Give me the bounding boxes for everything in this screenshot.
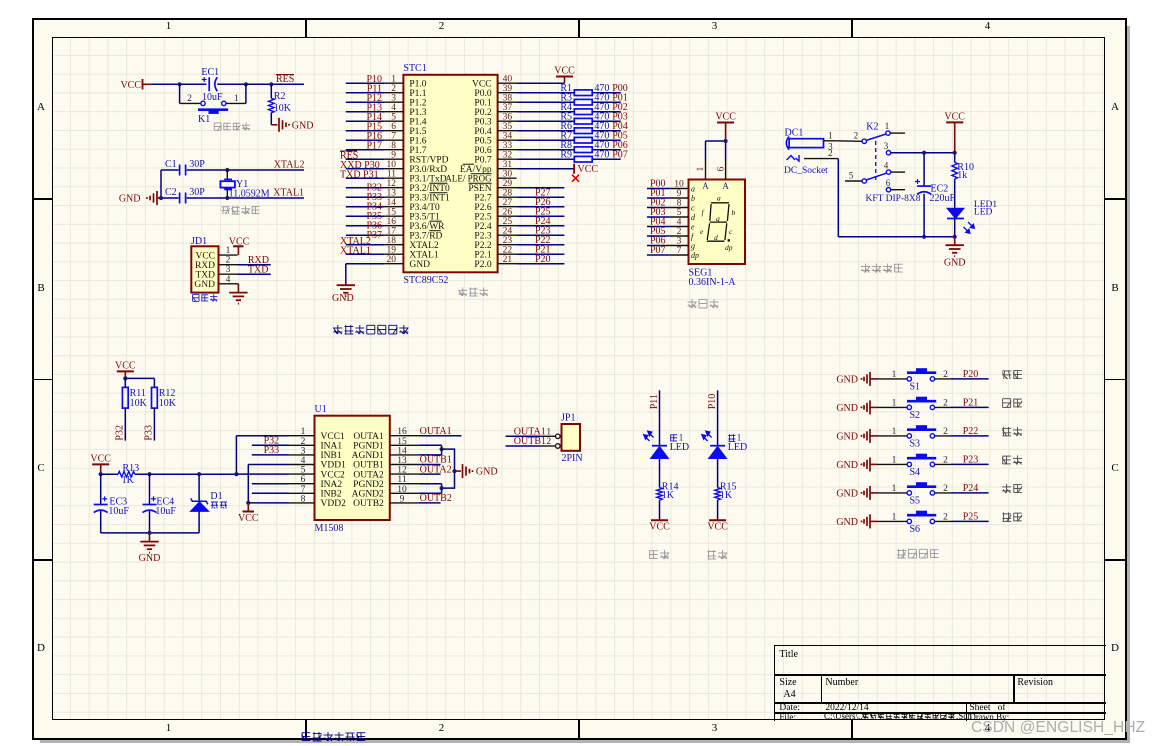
- wire: [517, 206, 565, 208]
- motor driver U1 M1508: [289, 404, 419, 534]
- svg-text:K2: K2: [866, 121, 878, 132]
- svg-text:2: 2: [391, 84, 396, 94]
- svg-text:P0.5: P0.5: [474, 136, 491, 146]
- wire net P21: [935, 406, 989, 408]
- svg-text:P20: P20: [535, 254, 551, 265]
- svg-text:dp: dp: [725, 243, 733, 252]
- wire: [517, 215, 565, 217]
- net label P24: [963, 483, 979, 494]
- node gnd junction: [147, 531, 151, 535]
- svg-text:8: 8: [391, 141, 396, 151]
- svg-text:P1.2: P1.2: [409, 98, 426, 108]
- resistor R14 1K: [657, 482, 679, 521]
- svg-text:P1.5: P1.5: [409, 127, 426, 137]
- component labels SEG1 0.36IN-1-A: [689, 268, 737, 289]
- ground GND (U1): [455, 464, 498, 478]
- svg-text:C:\Users\..: C:\Users\..: [824, 711, 863, 721]
- net label XTAL2: [274, 160, 305, 171]
- svg-text:P1.4: P1.4: [409, 117, 426, 127]
- svg-text:2: 2: [187, 94, 192, 104]
- net label TXD: [248, 264, 269, 275]
- svg-text:P0.7: P0.7: [474, 155, 491, 165]
- svg-text:1: 1: [892, 399, 897, 409]
- label 正转: [1002, 427, 1022, 436]
- svg-text:P0.4: P0.4: [474, 127, 491, 137]
- svg-text:OUTB2: OUTB2: [353, 499, 384, 509]
- watermark CSDN @ENGLISH_HHZ: [971, 719, 1145, 737]
- net label OUTB2 (U1): [420, 493, 452, 504]
- svg-text:15: 15: [387, 208, 397, 218]
- button S3: [892, 426, 949, 450]
- svg-text:P22: P22: [963, 426, 979, 437]
- button S2: [892, 397, 949, 421]
- resistor R12 10K: [152, 387, 177, 440]
- svg-text:27: 27: [503, 198, 513, 208]
- svg-text:R2: R2: [274, 91, 286, 102]
- svg-text:P2.2: P2.2: [474, 241, 491, 251]
- svg-text:14: 14: [387, 198, 397, 208]
- svg-text:P0.1: P0.1: [474, 98, 491, 108]
- svg-text:C2: C2: [165, 187, 177, 198]
- ground GND (S6): [836, 514, 877, 528]
- net label P25: [963, 512, 979, 523]
- wire: [217, 83, 246, 85]
- wire rail: [101, 473, 237, 475]
- wire pgnd2: [419, 484, 442, 488]
- label 加速: [1002, 484, 1022, 493]
- led 绿1: [644, 431, 690, 488]
- power port VCC (JD1): [229, 237, 250, 256]
- svg-text:13: 13: [387, 189, 397, 199]
- wire net P22: [935, 435, 989, 437]
- wire: [517, 244, 565, 246]
- svg-text:11: 11: [397, 475, 406, 485]
- svg-text:XTAL1: XTAL1: [340, 246, 371, 257]
- svg-text:3: 3: [677, 237, 682, 247]
- resistor R8 470: [560, 140, 609, 152]
- svg-text:10K: 10K: [159, 398, 177, 409]
- svg-text:TXD: TXD: [195, 270, 215, 280]
- wire agnd2: [419, 488, 442, 493]
- svg-text:GND: GND: [119, 194, 141, 205]
- button K1: [180, 84, 246, 125]
- ground GND (crystal): [119, 191, 163, 205]
- diode D1 (zener): [190, 474, 227, 533]
- svg-text:P2.4: P2.4: [474, 222, 491, 232]
- power port VCC (P11): [649, 520, 670, 533]
- caption 晶振电路: [221, 206, 259, 214]
- svg-text:OUTB1: OUTB1: [353, 461, 384, 471]
- net label P23: [963, 455, 979, 466]
- svg-text:P0.3: P0.3: [474, 117, 491, 127]
- net label OUTB1 (JP1): [514, 436, 546, 447]
- net label P11 (led): [649, 394, 660, 409]
- wire: [877, 406, 907, 408]
- capacitor C1: [165, 159, 205, 176]
- svg-text:PSEN: PSEN: [468, 184, 491, 194]
- node pgnd1-agnd1 junction: [440, 447, 444, 451]
- net label RES: [276, 74, 294, 85]
- ground GND (power): [944, 237, 966, 269]
- svg-text:P21: P21: [963, 398, 979, 409]
- wire pgnd1: [419, 445, 442, 449]
- svg-text:VCC: VCC: [90, 453, 111, 464]
- net label P03: [612, 112, 628, 123]
- svg-text:OUTA1: OUTA1: [420, 426, 452, 437]
- svg-text:30P: 30P: [189, 187, 205, 198]
- svg-text:VCC: VCC: [238, 513, 259, 524]
- net label P23: [535, 226, 551, 237]
- svg-text:INA2: INA2: [321, 480, 343, 490]
- wire: [517, 196, 565, 198]
- net label P20: [535, 254, 551, 265]
- svg-text:20: 20: [387, 255, 397, 265]
- svg-text:P1.0: P1.0: [409, 79, 426, 89]
- svg-text:RES: RES: [276, 74, 294, 85]
- svg-text:4: 4: [677, 218, 682, 228]
- svg-text:TXD P31: TXD P31: [340, 170, 379, 181]
- wire seg left pins: [647, 189, 670, 256]
- ground GND (mcu): [332, 285, 355, 304]
- svg-text:9: 9: [400, 494, 405, 504]
- svg-text:LED: LED: [728, 442, 747, 453]
- svg-text:GND: GND: [836, 403, 858, 414]
- svg-text:21: 21: [503, 255, 513, 265]
- net label P01: [612, 93, 628, 104]
- svg-text:470: 470: [594, 150, 609, 161]
- resistor R11 10K: [122, 387, 147, 440]
- svg-text:10uF: 10uF: [108, 506, 129, 517]
- wire pin6 stub: [252, 483, 289, 485]
- net label OUTA1 (U1): [420, 426, 452, 437]
- wire: [161, 170, 179, 198]
- svg-text:10uF: 10uF: [155, 506, 176, 517]
- ground GND (S5): [836, 486, 877, 500]
- svg-text:R9: R9: [560, 150, 572, 161]
- svg-text:10: 10: [387, 160, 397, 170]
- wire net P20: [935, 378, 989, 380]
- wire: [877, 492, 907, 494]
- svg-text:RXD: RXD: [195, 261, 215, 271]
- resistor R9 470: [560, 150, 609, 162]
- button S1: [892, 369, 949, 393]
- wire pin8 vdd2: [248, 502, 288, 504]
- net label P06: [612, 140, 628, 151]
- svg-text:OUTA2: OUTA2: [353, 470, 384, 480]
- svg-text:6: 6: [886, 178, 891, 188]
- svg-text:DC1: DC1: [785, 128, 804, 139]
- svg-text:10uF: 10uF: [202, 92, 223, 103]
- svg-text:VCC: VCC: [195, 251, 215, 261]
- svg-text:3: 3: [391, 94, 396, 104]
- svg-text:P20: P20: [963, 369, 979, 380]
- connector JP1 2PIN: [540, 413, 583, 465]
- svg-text:INB2: INB2: [321, 490, 342, 500]
- button S4: [892, 454, 949, 478]
- svg-text:16: 16: [397, 427, 407, 437]
- ground GND (S2): [836, 400, 877, 414]
- wire: [517, 92, 621, 94]
- svg-text:30: 30: [503, 170, 513, 180]
- wire: [706, 141, 726, 161]
- svg-text:P25: P25: [963, 512, 979, 523]
- svg-text:JP1: JP1: [561, 413, 575, 424]
- wire vcc node: [891, 152, 955, 154]
- label 停止: [1003, 399, 1023, 408]
- node pullup junction: [123, 376, 127, 380]
- ground GND (reset): [271, 118, 313, 132]
- svg-text:OUTA1: OUTA1: [353, 432, 384, 442]
- wire net RES: [246, 83, 304, 85]
- power port VCC (mcu pin40): [554, 66, 575, 84]
- svg-text:1: 1: [391, 75, 396, 85]
- svg-text:7: 7: [677, 246, 682, 256]
- svg-text:7: 7: [301, 485, 306, 495]
- wire pin7 stub: [252, 492, 289, 494]
- net label P21: [535, 245, 551, 256]
- svg-text:P1.1: P1.1: [409, 89, 426, 99]
- svg-text:VCC: VCC: [554, 66, 575, 77]
- svg-text:VCC: VCC: [715, 112, 736, 123]
- switch K2: [845, 121, 921, 204]
- led 红1: [702, 431, 748, 488]
- svg-text:1: 1: [892, 513, 897, 523]
- svg-text:a: a: [717, 193, 721, 202]
- net label P21: [963, 398, 979, 409]
- caption 下载口: [192, 294, 217, 301]
- svg-text:P3.0/RxD: P3.0/RxD: [409, 165, 447, 175]
- svg-text:5: 5: [677, 208, 682, 218]
- svg-text:4: 4: [391, 103, 396, 113]
- svg-text:5: 5: [391, 113, 396, 123]
- wire: [877, 435, 907, 437]
- svg-text:39: 39: [503, 84, 513, 94]
- node VCC-R10 junction: [953, 151, 957, 155]
- svg-text:b: b: [732, 208, 736, 217]
- svg-text:OUTB2: OUTB2: [420, 493, 452, 504]
- svg-text:VCC: VCC: [472, 79, 492, 89]
- svg-text:P2.6: P2.6: [474, 203, 491, 213]
- connector JD1: [191, 236, 238, 293]
- no-connect X (pin30): [572, 175, 579, 182]
- svg-text:P2.0: P2.0: [474, 260, 491, 270]
- svg-text:1K: 1K: [122, 475, 135, 486]
- wire: [517, 168, 575, 170]
- svg-text:0.36IN-1-A: 0.36IN-1-A: [689, 277, 737, 288]
- svg-text:25: 25: [503, 217, 513, 227]
- svg-text:XTAL1: XTAL1: [409, 250, 439, 260]
- svg-text:11: 11: [387, 170, 396, 180]
- svg-text:1K: 1K: [720, 490, 733, 501]
- svg-text:STC89C52: STC89C52: [403, 275, 448, 286]
- svg-text:P23: P23: [963, 455, 979, 466]
- svg-text:VCC: VCC: [649, 522, 670, 533]
- svg-text:JD1: JD1: [191, 236, 207, 247]
- caption 数码管: [688, 299, 719, 308]
- svg-text:P33: P33: [144, 425, 155, 441]
- node vdd junction: [246, 501, 250, 505]
- ground GND (S4): [836, 457, 877, 471]
- resistor R7 470: [560, 131, 609, 143]
- svg-text:1: 1: [546, 428, 551, 438]
- svg-text:30P: 30P: [189, 159, 205, 170]
- svg-text:K1: K1: [198, 114, 210, 125]
- net label P26: [535, 197, 551, 208]
- wire net RXD: [238, 264, 271, 266]
- svg-text:32: 32: [503, 151, 513, 161]
- svg-text:P2.1: P2.1: [474, 250, 491, 260]
- svg-text:KFT DIP-8X8: KFT DIP-8X8: [866, 194, 921, 204]
- node rail-pin1 junction: [234, 472, 238, 476]
- wire: [517, 187, 565, 189]
- svg-text:XTAL2: XTAL2: [274, 160, 305, 171]
- net label OUTA2 (U1): [420, 464, 452, 475]
- wire net OUTB2: [419, 502, 441, 504]
- svg-text:10: 10: [674, 180, 684, 190]
- svg-text:b: b: [691, 194, 695, 203]
- wire net P33: [252, 454, 289, 456]
- svg-text:XTAL2: XTAL2: [409, 241, 439, 251]
- svg-text:DC_Socket: DC_Socket: [784, 166, 828, 176]
- net label P32 (U1): [264, 436, 280, 447]
- label 启动: [1002, 371, 1022, 379]
- svg-text:S1: S1: [910, 381, 921, 392]
- net label P33 (pullup): [144, 425, 155, 441]
- svg-text:11.0592M: 11.0592M: [229, 189, 270, 200]
- svg-text:VCC: VCC: [120, 80, 141, 91]
- node crystal-top junction: [225, 168, 229, 172]
- net label P22: [535, 235, 551, 246]
- net label P04: [612, 121, 628, 132]
- svg-text:4: 4: [884, 161, 889, 171]
- net label P00: [612, 83, 628, 94]
- svg-text:36: 36: [503, 113, 513, 123]
- svg-text:A: A: [702, 181, 709, 191]
- svg-text:P3.7/RD: P3.7/RD: [409, 231, 442, 241]
- resistor R15 1K: [715, 482, 737, 521]
- power port VCC (reset): [120, 79, 152, 91]
- svg-text:P07: P07: [612, 150, 628, 161]
- svg-text:2: 2: [546, 437, 551, 447]
- svg-text:7: 7: [391, 132, 396, 142]
- node K2-EC2 junction: [922, 151, 926, 155]
- svg-text:2: 2: [828, 148, 833, 158]
- svg-text:VCC1: VCC1: [321, 432, 346, 442]
- svg-text:10: 10: [397, 485, 407, 495]
- svg-text:VCC: VCC: [578, 164, 599, 175]
- wire net P11: [659, 390, 661, 445]
- svg-text:a: a: [691, 185, 695, 194]
- capacitor EC4 10uF: [143, 474, 177, 533]
- svg-text:GND: GND: [836, 432, 858, 443]
- wire: [877, 463, 907, 465]
- caption 按键复位: [214, 123, 250, 131]
- svg-text:P0.6: P0.6: [474, 146, 491, 156]
- svg-text:1: 1: [892, 427, 897, 437]
- wire gnd trunk: [442, 449, 455, 488]
- svg-text:GND: GND: [944, 258, 966, 269]
- svg-text:GND: GND: [476, 467, 498, 478]
- wire: [517, 263, 565, 265]
- svg-text:10K: 10K: [130, 398, 148, 409]
- svg-text:1: 1: [301, 427, 306, 437]
- svg-text:10K: 10K: [274, 103, 292, 114]
- wire net P25: [935, 520, 989, 522]
- button S6: [892, 511, 949, 535]
- svg-text:6: 6: [716, 167, 726, 172]
- svg-text:37: 37: [503, 103, 513, 113]
- net label P32 (pullup): [115, 425, 126, 441]
- resistor R6 470: [560, 121, 609, 133]
- svg-text:1: 1: [892, 484, 897, 494]
- svg-text:1: 1: [696, 167, 706, 172]
- wire net OUTA1 (JP1): [506, 435, 541, 437]
- svg-text:R13: R13: [123, 463, 140, 474]
- svg-text:38: 38: [503, 94, 513, 104]
- power port VCC (P10): [707, 520, 728, 533]
- svg-text:5: 5: [301, 466, 306, 476]
- mcu U-STC1 STC89C52: [384, 63, 516, 286]
- svg-text:AGND1: AGND1: [352, 451, 384, 461]
- net label P27: [535, 188, 551, 199]
- node crystal-bottom junction: [225, 196, 229, 200]
- svg-text:P0.0: P0.0: [474, 89, 491, 99]
- dc socket DC1: [784, 128, 838, 177]
- wire: [517, 225, 565, 227]
- svg-text:1: 1: [737, 432, 742, 442]
- capacitor C2: [165, 187, 205, 204]
- svg-text:13: 13: [397, 456, 407, 466]
- svg-text:1: 1: [885, 121, 890, 131]
- svg-text:17: 17: [387, 227, 397, 237]
- svg-text:1: 1: [679, 432, 684, 442]
- node trunk-gnd junction: [452, 469, 456, 473]
- svg-text:5: 5: [849, 171, 854, 181]
- net label P20: [963, 369, 979, 380]
- label 减速: [1002, 512, 1022, 521]
- net label P25: [535, 207, 551, 218]
- svg-text:1: 1: [892, 370, 897, 380]
- svg-text:GND: GND: [292, 121, 314, 132]
- resistor R1 470: [560, 83, 609, 95]
- svg-text:14: 14: [397, 446, 407, 456]
- wire: [877, 378, 907, 380]
- net label OUTB1 (U1): [420, 455, 452, 466]
- ground GND (JD1): [229, 284, 247, 304]
- svg-text:26: 26: [503, 208, 513, 218]
- net labels P00-P07 (seg): [650, 179, 666, 257]
- wire: [152, 83, 206, 85]
- svg-text:LED: LED: [670, 442, 689, 453]
- resistor R4 470: [560, 102, 609, 114]
- net label P10 (led): [707, 394, 718, 410]
- net label OUTA1 (JP1): [514, 427, 546, 438]
- capacitor EC2 220uF: [915, 153, 956, 237]
- svg-text:GND: GND: [139, 553, 161, 564]
- node rail-EC4 junction: [147, 472, 151, 476]
- svg-text:9: 9: [391, 151, 396, 161]
- svg-text:P32: P32: [115, 425, 126, 441]
- svg-text:OUTA2: OUTA2: [420, 464, 452, 475]
- svg-text:ALE/ PROG: ALE/ PROG: [445, 173, 492, 183]
- svg-text:3: 3: [226, 265, 231, 275]
- svg-text:VCC: VCC: [115, 360, 136, 371]
- svg-text:P3.4/T0: P3.4/T0: [409, 203, 440, 213]
- svg-text:220uF: 220uF: [930, 193, 956, 204]
- svg-text:24: 24: [503, 227, 513, 237]
- node reset-left junction: [178, 82, 182, 86]
- wire net P10: [717, 390, 719, 445]
